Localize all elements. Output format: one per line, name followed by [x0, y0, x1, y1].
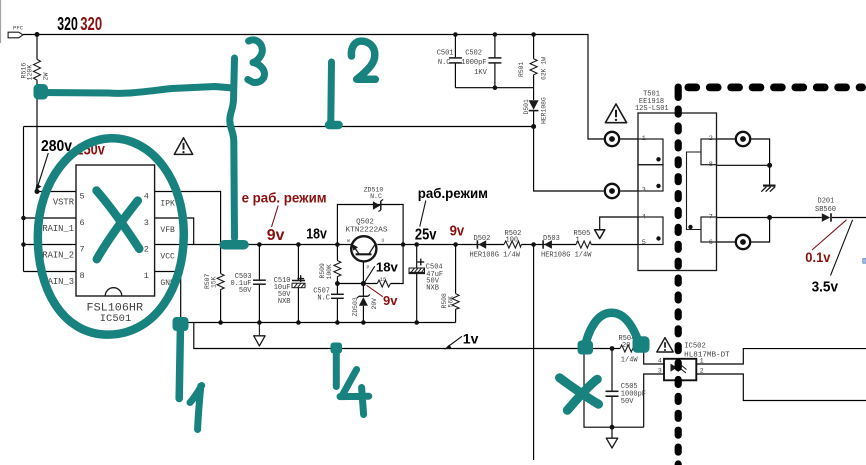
diode D502 — [478, 240, 486, 248]
signal ground (bus) — [258, 323, 260, 336]
wire: C505 vertical — [611, 349, 613, 392]
junction (455.6,244.5) — [453, 242, 458, 247]
svg-text:8: 8 — [80, 271, 85, 281]
IC502 pin numbers — [658, 357, 704, 375]
zener ZD503 — [359, 297, 368, 306]
svg-text:D503: D503 — [543, 235, 560, 243]
IC501 pin numbers — [80, 192, 149, 282]
svg-text:D501: D501 — [523, 99, 530, 115]
marker: digit 4 — [340, 370, 369, 415]
svg-text:100K: 100K — [326, 264, 333, 280]
wire: C505 ground stub — [611, 427, 613, 438]
T501 pin numbers — [642, 135, 713, 247]
svg-text:RAIN_1: RAIN_1 — [42, 224, 74, 234]
wire: IC502 pin1 output — [696, 349, 866, 364]
junction (220.6,322.5) — [218, 320, 223, 325]
capacitor C504 electrolytic — [409, 268, 425, 272]
marker: vertical stroke with digit 4 — [331, 343, 343, 354]
wire: T501 pin4 to net arrow — [600, 217, 638, 230]
svg-text:25v: 25v — [415, 227, 437, 244]
wire: main top rail 320V — [23, 35, 604, 140]
junction (403.1,244.5) — [401, 242, 406, 247]
wire: DRAIN_3 pin 8 — [24, 271, 77, 273]
junction (259.4,244.5) — [257, 242, 262, 247]
wire: IC502 pin2 output — [696, 374, 866, 401]
signal ground (C505) — [606, 438, 617, 448]
svg-text:5: 5 — [642, 239, 646, 247]
svg-text:2: 2 — [709, 135, 713, 143]
isolation barrier dashed line horizontal — [685, 84, 866, 92]
wire: ZD503 vertical — [362, 284, 364, 297]
wire: R504 to IC502 pin4 — [644, 349, 664, 365]
svg-text:50V: 50V — [239, 287, 252, 295]
wire: T501 pin6 to terminal — [717, 241, 736, 243]
svg-text:6: 6 — [709, 239, 713, 247]
svg-text:7: 7 — [80, 245, 85, 255]
zener ZD510 — [373, 201, 380, 209]
svg-text:IC502: IC502 — [684, 342, 706, 350]
svg-text:ZD503: ZD503 — [352, 297, 359, 316]
resistor R516 — [34, 59, 41, 80]
IC501 pin names — [42, 198, 175, 289]
wire: C504 vertical — [416, 245, 418, 269]
junction (658.5,238.5) — [656, 236, 660, 240]
resistor R504 — [620, 345, 636, 352]
junction (416.7,322.5) — [414, 320, 419, 325]
T501 winding 1-3 — [638, 139, 663, 165]
svg-text:20: 20 — [622, 342, 630, 350]
transistor Q502 — [351, 236, 376, 261]
junction (23.5,244.5) — [21, 242, 26, 247]
junction (37,191.5) — [35, 189, 40, 194]
svg-text:280v: 280v — [41, 138, 72, 155]
svg-text:18v: 18v — [306, 226, 327, 242]
capacitor C503 — [253, 279, 266, 281]
wire: C505 bottom loop — [584, 349, 644, 428]
svg-text:NXB: NXB — [426, 285, 439, 293]
svg-text:N.C: N.C — [317, 294, 330, 302]
warning triangle 1 — [174, 138, 192, 155]
junction (494.9,34.5) — [493, 32, 498, 37]
svg-text:VSTR: VSTR — [53, 198, 75, 208]
svg-text:1KV: 1KV — [474, 69, 487, 77]
svg-text:4: 4 — [658, 357, 662, 365]
resistor R502 — [504, 241, 521, 248]
transformer T501 — [638, 113, 717, 271]
wire: R516 branch vertical — [36, 35, 38, 60]
marker: X over IC501 — [97, 191, 140, 249]
diode D201 — [822, 213, 830, 221]
svg-text:HER108G: HER108G — [541, 97, 548, 124]
svg-text:9v: 9v — [383, 293, 398, 308]
svg-text:KTN2222AS: KTN2222AS — [346, 227, 389, 235]
marker: X near C505 — [560, 378, 599, 404]
wire: ZD510 loop — [337, 205, 403, 245]
junction (612,348.5) — [610, 346, 615, 351]
T501 secondary tap link — [687, 152, 702, 230]
wire: VFB pin 3 — [155, 218, 194, 245]
junction (494.9,87.7) — [493, 85, 498, 90]
PFC connector flag — [8, 32, 23, 38]
wire: emitter row — [337, 283, 377, 285]
optocoupler IC502 — [664, 359, 696, 381]
svg-text:1v: 1v — [463, 330, 479, 346]
svg-text:1000pF: 1000pF — [461, 59, 486, 67]
T501 winding 7-6 — [701, 217, 717, 242]
isolation barrier dashed line vertical — [675, 84, 682, 465]
svg-text:2: 2 — [144, 245, 149, 255]
svg-text:1: 1 — [700, 357, 704, 365]
svg-text:18v: 18v — [376, 259, 399, 274]
wire: terminal to earth — [751, 139, 770, 185]
svg-text:N.C: N.C — [370, 193, 382, 200]
svg-text:120K: 120K — [27, 65, 34, 81]
svg-text:R501: R501 — [518, 61, 525, 77]
junction (769.6,165.3) — [767, 163, 772, 168]
wire: VSTR pin 5 — [37, 191, 76, 193]
svg-text:W: W — [347, 238, 350, 244]
wire: T501 pin2 to terminal — [717, 138, 736, 140]
svg-text:HL817MB-DT: HL817MB-DT — [684, 351, 730, 359]
wire: D503/R505 junction down — [533, 245, 535, 461]
svg-text:NXB: NXB — [278, 298, 291, 306]
junction (37,34.5) — [35, 32, 40, 37]
junction (533.6,126.5) — [531, 124, 536, 129]
wire: C501 vertical — [454, 35, 456, 58]
capacitor C510 electrolytic — [292, 280, 305, 282]
marker: arc over R504 — [578, 341, 594, 355]
wire: snubber bottom — [455, 87, 533, 89]
svg-text:9v: 9v — [450, 223, 465, 240]
junction (337.4,244.5) — [335, 242, 340, 247]
svg-text:50V: 50V — [621, 398, 634, 406]
svg-text:5: 5 — [80, 192, 85, 202]
wire: DRAIN_1 pin 6 — [24, 217, 77, 219]
wire: primary to T501 pin3 — [534, 127, 604, 192]
svg-text:IPK: IPK — [160, 200, 175, 209]
warning triangle 3 — [657, 338, 673, 352]
junction (363.4,283.5) — [361, 281, 366, 286]
wire: C502 vertical — [494, 35, 496, 58]
svg-text:8: 8 — [709, 161, 713, 169]
junction (658.5,159.3) — [656, 157, 660, 161]
junction (533.6,244.5) — [531, 242, 536, 247]
resistor 15 (emitter) — [377, 280, 390, 287]
junction (259.4,322.5) — [257, 320, 262, 325]
earth ground (secondary) — [763, 185, 776, 187]
svg-text:320: 320 — [80, 14, 102, 34]
svg-text:VCC: VCC — [160, 253, 175, 262]
svg-text:RAIN_2: RAIN_2 — [42, 251, 74, 261]
marker: ellipse around IC501 — [38, 138, 184, 334]
resistor R505 — [576, 241, 591, 248]
wire: bus to R508 — [455, 309, 457, 322]
svg-text:56K: 56K — [448, 296, 455, 308]
junction (298.4,322.5) — [296, 320, 301, 325]
wire: terminal to T501 pin1 — [620, 138, 638, 140]
screenshot edge artifact — [0, 0, 2, 43]
svg-text:P: P — [367, 265, 370, 271]
svg-text:HER108G 1/4W: HER108G 1/4W — [470, 252, 521, 260]
svg-text:4: 4 — [642, 214, 646, 222]
marker: digit 3 — [248, 40, 265, 83]
svg-text:0.1v: 0.1v — [805, 250, 831, 265]
resistor R508 — [452, 294, 459, 310]
svg-text:15K: 15K — [211, 276, 218, 288]
marker: digit 1 — [190, 386, 202, 430]
junction (363.4,322.5) — [361, 320, 366, 325]
svg-text:3: 3 — [642, 186, 646, 194]
marker: vertical stroke with digit 1 — [173, 317, 189, 331]
marker: horizontal stroke top-left — [34, 84, 49, 100]
capacitor C505 — [606, 390, 619, 392]
junction (612,427.2) — [610, 425, 615, 430]
svg-text:320: 320 — [57, 14, 78, 34]
svg-text:3: 3 — [658, 368, 662, 376]
warning triangle 2 — [605, 104, 626, 123]
svg-text:PFC: PFC — [13, 25, 24, 32]
terminal (T501 pin1) — [605, 132, 750, 249]
svg-text:100: 100 — [506, 237, 519, 245]
junction (23.5,218) — [21, 216, 26, 221]
svg-text:20V: 20V — [371, 298, 378, 310]
svg-text:SB560: SB560 — [815, 206, 836, 214]
svg-text:15: 15 — [380, 277, 386, 283]
net arrow at T501 pin4 — [595, 230, 605, 239]
svg-text:U: U — [382, 238, 385, 244]
svg-text:D502: D502 — [474, 235, 491, 243]
wire: VCC rail segments — [155, 244, 351, 246]
wire: R501 vertical — [533, 35, 535, 59]
capacitor C507 — [331, 293, 344, 295]
svg-text:1: 1 — [576, 237, 580, 245]
svg-text:раб.режим: раб.режим — [418, 186, 488, 201]
svg-text:C502: C502 — [465, 50, 482, 58]
wire: IC502 pin3 loop — [644, 374, 664, 427]
svg-text:D201: D201 — [818, 197, 835, 205]
svg-text:4: 4 — [144, 192, 149, 202]
T501 winding 2-8 — [701, 139, 717, 165]
marker: digit 2 — [351, 41, 375, 79]
wire: C510 vertical — [297, 245, 299, 281]
IC501 FSL106HR body — [76, 165, 155, 296]
svg-text:7: 7 — [709, 214, 713, 222]
wire: R509 / C507 vertical — [336, 245, 338, 261]
resistor R507 — [217, 274, 224, 292]
svg-text:9v: 9v — [267, 227, 285, 244]
wire: left drain bus — [23, 127, 25, 272]
capacitor C501 — [449, 57, 462, 59]
svg-text:3: 3 — [144, 218, 149, 228]
svg-text:6: 6 — [80, 218, 85, 228]
marker: vertical stroke of 3 — [230, 58, 235, 238]
junction (337.4,283.5) — [335, 281, 340, 286]
wire: T501 pin8 — [717, 164, 770, 166]
resistor R509 — [334, 261, 341, 279]
junction (658.5,185.9) — [656, 184, 660, 188]
junction (690.5,227) — [688, 225, 692, 229]
svg-text:Q502: Q502 — [356, 219, 374, 227]
wire: DRAIN_2 pin 7 — [24, 244, 77, 246]
T501 winding 4-5 — [638, 217, 663, 245]
svg-text:1: 1 — [144, 271, 149, 281]
svg-text:C501: C501 — [437, 50, 454, 58]
wire: IPK pin 4 to R507 — [155, 192, 221, 274]
junction (298.4,244.5) — [296, 242, 301, 247]
wire: snubber/primary line y126.5 — [24, 126, 534, 128]
svg-text:R509: R509 — [319, 263, 326, 279]
wire: T501 pin7 to D201 — [717, 217, 822, 219]
wire: GND pin 1 to bus — [155, 272, 181, 323]
diode D503 — [544, 240, 552, 248]
svg-text:12S-LS01: 12S-LS01 — [635, 105, 669, 113]
teal marker strokes — [34, 40, 650, 430]
capacitor C502 — [488, 57, 501, 59]
svg-text:3.5v: 3.5v — [812, 279, 838, 295]
wire: Q502 base vertical — [362, 254, 364, 283]
tiny blue fragment right edge — [863, 259, 866, 264]
wire: D501 vertical — [533, 88, 535, 100]
resistor R501 — [530, 59, 537, 76]
wire: terminal to T501 pin3 — [620, 190, 638, 192]
junction (416.7,244.5) — [414, 242, 419, 247]
diode D501 — [529, 100, 539, 110]
svg-text:1/4W: 1/4W — [621, 357, 639, 365]
wire: 1v return line — [194, 323, 620, 349]
wire: C503 vertical — [258, 245, 260, 281]
svg-text:2W: 2W — [43, 73, 50, 81]
svg-text:е раб. режим: е раб. режим — [242, 190, 327, 206]
junction (533.6,34.5) — [531, 32, 536, 37]
svg-text:IC501: IC501 — [100, 313, 132, 325]
svg-text:2: 2 — [700, 368, 704, 376]
junction (455.4,34.5) — [453, 32, 458, 37]
wire: ground bus — [181, 322, 456, 324]
junction (769.6,217.5) — [767, 215, 772, 220]
svg-text:N.C: N.C — [438, 59, 451, 67]
svg-text:HER108G 1/4W: HER108G 1/4W — [541, 252, 592, 260]
marker: vertical stroke of 2 — [327, 62, 335, 121]
svg-text:1: 1 — [642, 135, 646, 143]
junction (337.4,322.5) — [335, 320, 340, 325]
svg-text:62K 1W: 62K 1W — [541, 57, 548, 80]
svg-text:VFB: VFB — [160, 226, 175, 235]
